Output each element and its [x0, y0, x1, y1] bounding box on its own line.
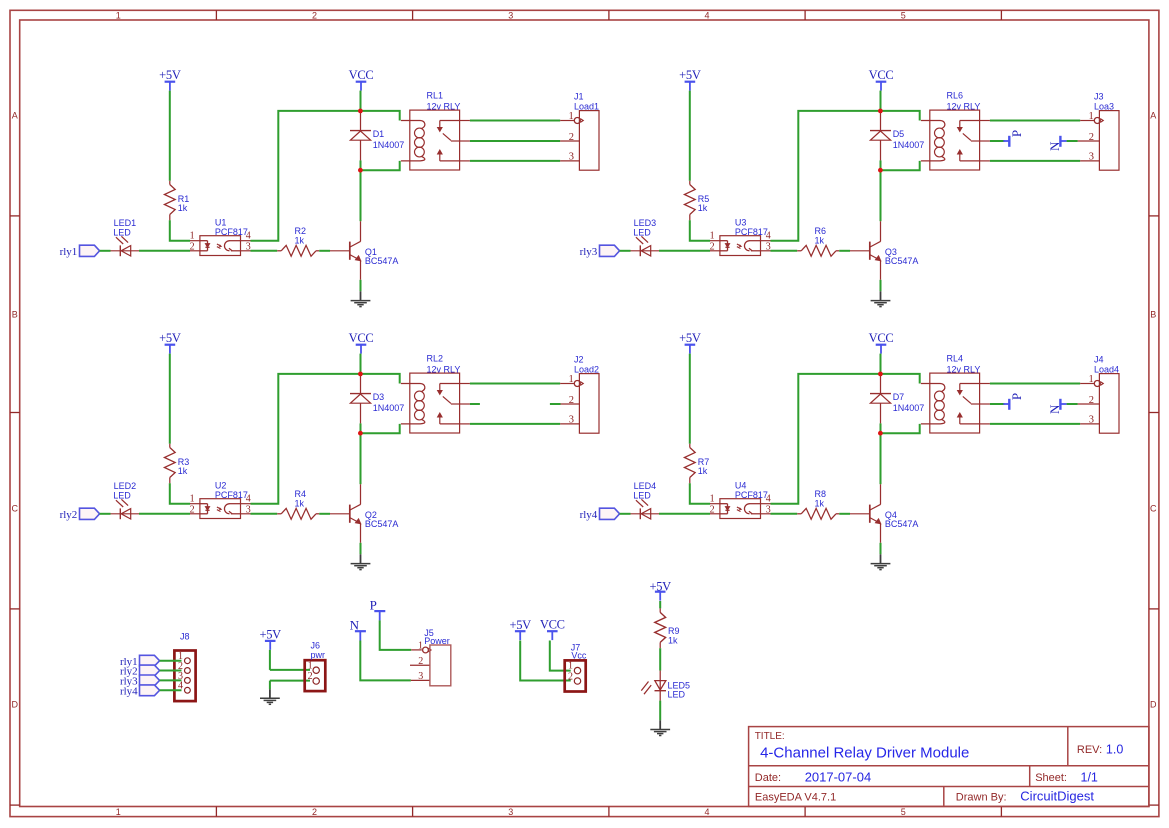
svg-text:1N4007: 1N4007	[893, 403, 925, 413]
wire VCC to rail	[880, 354, 882, 374]
svg-text:REV:: REV:	[1077, 744, 1102, 756]
wire R6 to Q3 base	[839, 250, 850, 252]
wire VCC to rail	[360, 354, 362, 374]
svg-text:B: B	[12, 310, 18, 320]
svg-text:1: 1	[1089, 374, 1094, 385]
svg-text:R9: R9	[668, 626, 680, 636]
wire R4 to Q2 base	[319, 513, 330, 515]
wire +5V to R1	[169, 91, 171, 181]
wire R7 to U4 pin1	[690, 483, 710, 503]
wire LED1 to U1 pin2	[139, 250, 190, 252]
wire U2 pin3 to R4	[251, 513, 278, 515]
wire Q2 collector	[360, 484, 362, 504]
svg-text:P: P	[1009, 130, 1024, 137]
wire LED2 to U2 pin2	[139, 513, 190, 515]
junction dot	[358, 372, 363, 377]
resistor R5	[689, 181, 691, 185]
svg-text:J1: J1	[574, 91, 584, 101]
svg-text:3: 3	[569, 152, 574, 163]
svg-text:3: 3	[569, 415, 574, 426]
wire +5V to J6 pin1	[269, 650, 271, 670]
svg-text:N: N	[1047, 404, 1062, 414]
svg-text:rly3: rly3	[580, 246, 598, 258]
svg-text:J3: J3	[1094, 91, 1104, 101]
svg-text:D: D	[12, 699, 19, 709]
svg-text:1k: 1k	[178, 203, 188, 213]
svg-text:LED: LED	[113, 227, 131, 237]
svg-text:VCC: VCC	[349, 331, 374, 345]
svg-text:2: 2	[190, 241, 195, 252]
svg-text:1: 1	[116, 807, 121, 817]
svg-text:1N4007: 1N4007	[893, 140, 925, 150]
svg-text:2: 2	[569, 395, 574, 406]
wire +5V to R5	[689, 91, 691, 181]
wire U3 pin3 to R6	[771, 250, 798, 252]
net port rly4	[600, 508, 620, 519]
net port rly1 at J8	[140, 655, 160, 666]
connector J7	[565, 660, 586, 691]
wire rly4 to LED4	[620, 513, 631, 515]
svg-text:LED: LED	[633, 490, 651, 500]
wire LED3 to U3 pin2	[659, 250, 710, 252]
svg-text:VCC: VCC	[869, 331, 894, 345]
wire +5V to R7	[689, 354, 691, 444]
svg-text:J6: J6	[311, 641, 321, 651]
resistor R6	[797, 250, 801, 252]
wire U1 pin4 to VCC rail	[251, 111, 400, 241]
junction dot	[878, 372, 883, 377]
wire U1 pin3 to R2	[251, 250, 278, 252]
wire rly3 to J8 pin 3	[160, 679, 182, 681]
wire +5V to R9	[659, 601, 661, 608]
ground	[260, 697, 280, 699]
net port rly3	[600, 245, 620, 256]
wire rly2 to LED2	[100, 513, 111, 515]
svg-text:BC547A: BC547A	[885, 519, 919, 529]
svg-text:Date:: Date:	[755, 772, 781, 784]
wire P to J5 pin1	[380, 620, 412, 650]
svg-text:D: D	[1150, 699, 1157, 709]
svg-text:J4: J4	[1094, 354, 1104, 364]
wire U2 pin4 to VCC rail	[251, 374, 400, 504]
svg-text:A: A	[12, 111, 18, 121]
svg-text:+5V: +5V	[159, 331, 181, 345]
wire Q1 collector	[360, 221, 362, 241]
svg-text:+5V: +5V	[679, 331, 701, 345]
connector J3	[1099, 111, 1119, 171]
svg-text:1: 1	[190, 231, 195, 242]
connector J5	[430, 645, 451, 686]
svg-text:+5V: +5V	[159, 68, 181, 82]
wire VCC to J7 pin1	[550, 641, 571, 671]
resistor R8	[797, 513, 801, 515]
svg-text:CircuitDigest: CircuitDigest	[1020, 789, 1094, 804]
connector J4	[1099, 374, 1119, 434]
svg-text:2: 2	[568, 671, 573, 682]
svg-text:1k: 1k	[295, 498, 305, 508]
transistor Q2	[349, 505, 351, 523]
net port rly2 at J8	[140, 665, 160, 676]
svg-text:P: P	[1009, 393, 1024, 400]
power flag N	[1059, 399, 1061, 410]
LED LED2	[111, 513, 140, 515]
resistor R2	[277, 250, 281, 252]
wire N to J5 pin3	[360, 641, 411, 681]
svg-text:BC547A: BC547A	[885, 256, 919, 266]
svg-text:B: B	[1150, 310, 1156, 320]
svg-text:1/1: 1/1	[1081, 770, 1098, 784]
optocoupler U2	[200, 499, 241, 519]
wire bottom rail to relay coil	[881, 161, 920, 170]
svg-text:Sheet:: Sheet:	[1035, 772, 1067, 784]
svg-text:A: A	[1150, 111, 1156, 121]
frame column ticks	[215, 10, 217, 20]
svg-text:1: 1	[710, 494, 715, 505]
wire RL1 pin3 to J1 pin3	[470, 160, 560, 162]
ground	[650, 729, 670, 731]
wire R2 to Q1 base	[319, 250, 330, 252]
svg-text:BC547A: BC547A	[365, 256, 399, 266]
wire Q2 emitter to ground	[360, 523, 362, 542]
wire RL6 pin2 to P flag	[990, 140, 1005, 142]
transistor Q4	[869, 505, 871, 523]
svg-text:rly4: rly4	[120, 685, 138, 697]
optocoupler U4	[720, 499, 761, 519]
ground	[871, 300, 891, 302]
wire R5 to U3 pin1	[690, 220, 710, 240]
wire R9 to LED5	[659, 648, 661, 670]
svg-text:+5V: +5V	[259, 628, 281, 642]
svg-text:Loa3: Loa3	[1094, 102, 1114, 112]
svg-text:1k: 1k	[698, 203, 708, 213]
svg-text:1: 1	[1089, 111, 1094, 122]
svg-text:D7: D7	[893, 392, 905, 402]
frame row ticks	[10, 215, 20, 217]
svg-text:EasyEDA V4.7.1: EasyEDA V4.7.1	[755, 791, 836, 803]
relay RL6	[930, 110, 980, 170]
svg-text:PCF817: PCF817	[215, 227, 248, 237]
wire U3 pin4 to VCC rail	[771, 111, 920, 241]
transistor Q1	[349, 242, 351, 260]
svg-text:1: 1	[116, 10, 121, 20]
wire rly4 to J8 pin 4	[160, 689, 182, 691]
svg-text:RL6: RL6	[947, 91, 964, 101]
junction dot	[878, 168, 883, 173]
title block	[749, 727, 1149, 807]
svg-text:BC547A: BC547A	[365, 519, 399, 529]
wire LED5 to ground	[659, 701, 661, 721]
J5 pin2 stub	[410, 664, 430, 666]
svg-text:3: 3	[508, 10, 513, 20]
wire Q3 collector	[880, 221, 882, 241]
svg-text:1: 1	[568, 661, 573, 672]
svg-text:12v RLY: 12v RLY	[427, 364, 461, 374]
wire Q4 collector	[880, 484, 882, 504]
wire RL4 pin2 to P flag	[990, 403, 1005, 405]
wire stub J2 pin2	[550, 403, 561, 405]
svg-text:VCC: VCC	[349, 68, 374, 82]
wire N flag to J3 pin2	[1067, 140, 1078, 142]
svg-text:2: 2	[418, 656, 423, 667]
svg-text:1k: 1k	[178, 466, 188, 476]
svg-text:2: 2	[710, 241, 715, 252]
wire RL4 pin3 to J4 pin3	[990, 423, 1080, 425]
svg-text:VCC: VCC	[540, 618, 565, 632]
wire D3 to bottom rail	[360, 423, 362, 433]
power flag P	[1003, 140, 1009, 142]
optocoupler U1	[200, 236, 241, 256]
LED LED1	[111, 250, 140, 252]
svg-text:1: 1	[710, 231, 715, 242]
wire Q3 emitter to ground	[880, 260, 882, 279]
svg-text:2: 2	[1089, 132, 1094, 143]
wire Q4 emitter to ground	[880, 523, 882, 542]
wire RL2 pin3 to J2 pin3	[470, 423, 560, 425]
svg-text:1k: 1k	[698, 466, 708, 476]
svg-text:Load2: Load2	[574, 365, 599, 375]
transistor Q3	[869, 242, 871, 260]
wire RL6 pin1 to J3 pin1	[990, 120, 1080, 122]
svg-text:2: 2	[569, 132, 574, 143]
svg-text:4-Channel Relay Driver Module: 4-Channel Relay Driver Module	[760, 744, 969, 761]
svg-text:3: 3	[766, 241, 771, 252]
ground	[351, 300, 371, 302]
svg-text:LED: LED	[113, 490, 131, 500]
LED LED3	[631, 250, 660, 252]
svg-text:rly4: rly4	[580, 509, 598, 521]
svg-text:3: 3	[1089, 152, 1094, 163]
wire R8 to Q4 base	[839, 513, 850, 515]
wire VCC to rail	[880, 91, 882, 111]
svg-text:12v RLY: 12v RLY	[427, 101, 461, 111]
svg-text:1: 1	[190, 494, 195, 505]
wire rly3 to LED3	[620, 250, 631, 252]
wire J6 pin2 to ground	[270, 680, 310, 682]
ground	[871, 563, 891, 565]
wire rly1 to J8 pin 1	[160, 660, 182, 662]
svg-text:2: 2	[1089, 395, 1094, 406]
svg-text:RL1: RL1	[427, 91, 444, 101]
wire rly1 to LED1	[100, 250, 111, 252]
svg-text:VCC: VCC	[869, 68, 894, 82]
svg-text:C: C	[1150, 503, 1157, 513]
svg-text:1.0: 1.0	[1106, 742, 1123, 756]
wire R3 to U2 pin1	[170, 483, 190, 503]
svg-text:pwr: pwr	[311, 650, 326, 660]
svg-text:J8: J8	[180, 632, 190, 642]
svg-text:Drawn By:: Drawn By:	[956, 791, 1007, 803]
wire RL1 pin2 to J1 pin2	[470, 140, 560, 142]
wire bottom rail to relay coil	[361, 424, 400, 433]
svg-text:2: 2	[312, 807, 317, 817]
net port rly3 at J8	[140, 675, 160, 686]
wire R1 to U1 pin1	[170, 220, 190, 240]
svg-text:J2: J2	[574, 354, 584, 364]
junction dot	[878, 431, 883, 436]
junction dot	[878, 109, 883, 114]
wire bottom rail to relay coil	[361, 161, 400, 170]
wire N flag to J4 pin2	[1067, 403, 1078, 405]
wire Q1 emitter to ground	[360, 260, 362, 279]
svg-text:Load4: Load4	[1094, 365, 1119, 375]
power flag N	[1059, 136, 1061, 147]
svg-text:1k: 1k	[668, 636, 678, 646]
relay RL4	[930, 373, 980, 433]
connector J8	[174, 651, 195, 702]
svg-text:1: 1	[569, 374, 574, 385]
svg-text:4: 4	[704, 10, 709, 20]
svg-text:1: 1	[418, 641, 423, 652]
ground	[351, 563, 371, 565]
diode D5	[880, 111, 882, 131]
wire D5 to bottom rail	[880, 160, 882, 170]
svg-text:PCF817: PCF817	[215, 490, 248, 500]
net port rly4 at J8	[140, 685, 160, 696]
svg-text:2: 2	[308, 671, 313, 682]
LED LED4	[631, 513, 660, 515]
svg-text:LED: LED	[668, 690, 686, 700]
svg-text:1k: 1k	[295, 235, 305, 245]
wire RL1 pin1 to J1 pin1	[470, 120, 560, 122]
wire LED4 to U4 pin2	[659, 513, 710, 515]
LED LED5	[659, 671, 661, 691]
svg-text:12v RLY: 12v RLY	[947, 101, 981, 111]
svg-text:Vcc: Vcc	[571, 650, 587, 660]
svg-text:3: 3	[246, 504, 251, 515]
svg-text:1k: 1k	[815, 498, 825, 508]
resistor R7	[689, 444, 691, 448]
connector J2	[579, 374, 599, 434]
wire RL2 pin1 to J2 pin1	[470, 383, 560, 385]
svg-text:Power: Power	[424, 636, 450, 646]
wire D7 to bottom rail	[880, 423, 882, 433]
svg-text:rly1: rly1	[60, 246, 78, 258]
svg-text:4: 4	[704, 807, 709, 817]
power flag P	[1003, 403, 1009, 405]
resistor R3	[169, 444, 171, 448]
net port rly2	[80, 508, 100, 519]
junction dot	[358, 168, 363, 173]
svg-text:2: 2	[190, 504, 195, 515]
svg-text:1: 1	[569, 111, 574, 122]
resistor R4	[277, 513, 281, 515]
svg-text:D3: D3	[373, 392, 385, 402]
svg-text:D5: D5	[893, 129, 905, 139]
svg-text:2: 2	[312, 10, 317, 20]
connector J6	[305, 660, 326, 691]
svg-text:N: N	[1047, 141, 1062, 151]
svg-text:PCF817: PCF817	[735, 490, 768, 500]
svg-text:12v RLY: 12v RLY	[947, 364, 981, 374]
diode D1	[360, 111, 362, 131]
svg-text:+5V: +5V	[509, 618, 531, 632]
svg-text:C: C	[12, 503, 19, 513]
svg-text:rly2: rly2	[60, 509, 78, 521]
svg-text:3: 3	[1089, 415, 1094, 426]
wire bottom rail to relay coil	[881, 424, 920, 433]
resistor R9	[659, 608, 661, 612]
svg-text:1k: 1k	[815, 235, 825, 245]
svg-text:RL4: RL4	[947, 354, 964, 364]
svg-text:RL2: RL2	[427, 354, 444, 364]
wire +5V to R3	[169, 354, 171, 444]
resistor R1	[169, 181, 171, 185]
svg-text:3: 3	[766, 504, 771, 515]
diode D3	[360, 374, 362, 394]
svg-text:D1: D1	[373, 129, 385, 139]
wire U4 pin3 to R8	[771, 513, 798, 515]
svg-text:PCF817: PCF817	[735, 227, 768, 237]
wire VCC to rail	[360, 91, 362, 111]
svg-text:5: 5	[901, 10, 906, 20]
relay RL1	[410, 110, 460, 170]
wire stub RL2 pin2	[470, 403, 480, 405]
wire RL6 pin3 to J3 pin3	[990, 160, 1080, 162]
svg-text:TITLE:: TITLE:	[755, 731, 785, 742]
svg-text:3: 3	[418, 671, 423, 682]
svg-text:1: 1	[308, 660, 313, 671]
junction dot	[358, 109, 363, 114]
net port rly1	[80, 245, 100, 256]
svg-text:5: 5	[901, 807, 906, 817]
relay RL2	[410, 373, 460, 433]
connector J1	[579, 111, 599, 171]
diode D7	[880, 374, 882, 394]
svg-text:LED: LED	[633, 227, 651, 237]
svg-text:2017-07-04: 2017-07-04	[805, 769, 872, 784]
svg-text:+5V: +5V	[679, 68, 701, 82]
wire rly2 to J8 pin 2	[160, 670, 182, 672]
optocoupler U3	[720, 236, 761, 256]
svg-text:1N4007: 1N4007	[373, 403, 405, 413]
svg-text:3: 3	[508, 807, 513, 817]
wire RL4 pin1 to J4 pin1	[990, 383, 1080, 385]
wire +5V to J7 pin2	[520, 641, 571, 681]
svg-text:3: 3	[246, 241, 251, 252]
svg-text:2: 2	[710, 504, 715, 515]
wire U4 pin4 to VCC rail	[771, 374, 920, 504]
wire D1 to bottom rail	[360, 160, 362, 170]
svg-text:1N4007: 1N4007	[373, 140, 405, 150]
junction dot	[358, 431, 363, 436]
svg-text:Load1: Load1	[574, 102, 599, 112]
